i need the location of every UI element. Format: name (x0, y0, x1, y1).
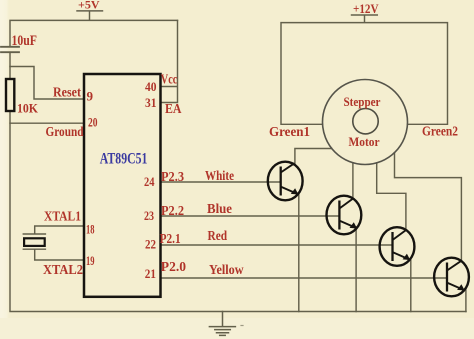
svg-text:9: 9 (87, 89, 94, 104)
svg-text:Green2: Green2 (422, 124, 458, 139)
svg-text:+5V: +5V (78, 0, 100, 11)
svg-text:21: 21 (145, 266, 156, 281)
svg-text:AT89C51: AT89C51 (100, 151, 148, 168)
svg-text:22: 22 (145, 237, 156, 252)
svg-text:Stepper: Stepper (344, 94, 381, 109)
svg-text:24: 24 (144, 174, 155, 189)
svg-text:40: 40 (145, 79, 157, 94)
svg-text:Green1: Green1 (269, 124, 310, 139)
svg-text:Yellow: Yellow (209, 262, 244, 277)
svg-text:P2.3: P2.3 (161, 169, 184, 184)
svg-text:Vcc: Vcc (161, 72, 178, 87)
svg-text:Blue: Blue (207, 201, 232, 216)
svg-text:20: 20 (88, 114, 98, 129)
svg-text:Reset: Reset (53, 85, 81, 100)
svg-text:XTAL2: XTAL2 (43, 263, 83, 278)
svg-text:P2.1: P2.1 (160, 231, 181, 246)
svg-text:18: 18 (86, 222, 95, 237)
svg-text:XTAL1: XTAL1 (44, 210, 81, 225)
svg-text:+12V: +12V (353, 1, 379, 16)
svg-text:23: 23 (144, 208, 154, 223)
svg-text:Ground: Ground (46, 124, 84, 139)
svg-text:10uF: 10uF (12, 33, 38, 49)
svg-text:Red: Red (208, 228, 228, 243)
svg-text:Motor: Motor (349, 134, 380, 149)
svg-text:P2.0: P2.0 (161, 259, 186, 274)
svg-text:EA: EA (165, 101, 182, 116)
svg-text:31: 31 (145, 95, 157, 110)
svg-text:P2.2: P2.2 (161, 203, 184, 218)
svg-text:White: White (205, 168, 234, 183)
svg-text:19: 19 (86, 253, 95, 268)
svg-text:10K: 10K (17, 101, 39, 116)
